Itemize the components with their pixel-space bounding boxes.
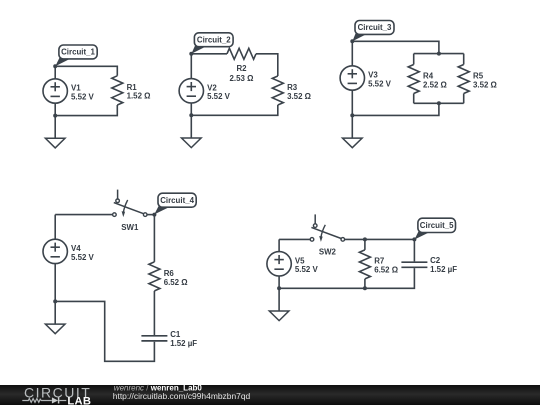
svg-text:V3: V3 <box>368 71 378 80</box>
wire <box>351 90 353 115</box>
wire <box>191 53 227 55</box>
resistor R6 <box>149 262 188 291</box>
wire <box>463 54 465 65</box>
svg-text:SW2: SW2 <box>319 248 337 257</box>
node circuit_3 top <box>350 39 354 43</box>
label Circuit_3 <box>352 21 394 42</box>
svg-text:C2: C2 <box>430 256 441 265</box>
node circuit_5 label <box>412 237 416 241</box>
wire <box>351 41 353 66</box>
node circuit_4 switch <box>152 213 156 217</box>
node circuit_3 junction bottom <box>437 101 441 105</box>
wire <box>55 301 154 361</box>
svg-text:R7: R7 <box>374 257 385 266</box>
wire <box>54 103 56 115</box>
wire <box>55 66 117 76</box>
node circuit_5 r7 bottom <box>363 286 367 290</box>
node circuit_3 bottom <box>350 113 354 117</box>
ground <box>45 301 65 333</box>
ground <box>269 288 289 320</box>
wire <box>153 215 155 262</box>
footer text <box>113 383 251 400</box>
node circuit_5 top <box>363 237 367 241</box>
svg-text:6.52 Ω: 6.52 Ω <box>164 278 188 287</box>
switch SW2 <box>310 214 344 256</box>
svg-text:V4: V4 <box>71 244 81 253</box>
wire <box>256 54 278 76</box>
voltage source V1 <box>43 79 67 103</box>
svg-text:R6: R6 <box>164 269 175 278</box>
switch SW1 <box>113 190 147 232</box>
node circuit_4 bottom <box>53 299 57 303</box>
CircuitLab logo <box>22 385 91 408</box>
svg-text:5.52 V: 5.52 V <box>295 265 319 274</box>
capacitor C2 <box>401 256 457 274</box>
svg-text:2.52 Ω: 2.52 Ω <box>423 80 447 89</box>
wire <box>279 268 414 288</box>
resistor R3 <box>272 76 311 105</box>
node circuit_5 bottom <box>277 286 281 290</box>
svg-text:R4: R4 <box>423 72 434 81</box>
svg-text:Circuit_3: Circuit_3 <box>358 23 392 32</box>
svg-text:5.52 V: 5.52 V <box>71 92 95 101</box>
voltage source V2 <box>179 79 203 103</box>
svg-text:R1: R1 <box>127 83 138 92</box>
svg-text:R5: R5 <box>473 72 484 81</box>
resistor R5 <box>458 65 497 94</box>
svg-text:Circuit_1: Circuit_1 <box>61 48 95 57</box>
resistor R4 <box>408 65 447 94</box>
wire parallel bottom <box>414 102 464 104</box>
wire <box>55 105 117 116</box>
wire <box>364 279 366 288</box>
wire <box>352 103 439 115</box>
wire <box>463 94 465 104</box>
voltage source V3 <box>340 66 364 90</box>
wire <box>278 276 280 288</box>
svg-text:R3: R3 <box>287 83 298 92</box>
svg-text:5.52 V: 5.52 V <box>71 253 95 262</box>
capacitor C1 <box>141 330 197 348</box>
svg-text:1.52 µF: 1.52 µF <box>430 265 457 274</box>
label Circuit_4 <box>154 193 196 214</box>
node circuit_1 bottom <box>53 114 57 118</box>
ground <box>182 115 202 147</box>
svg-text:3.52 Ω: 3.52 Ω <box>287 92 311 101</box>
resistor R1 <box>112 76 151 105</box>
wire <box>413 54 415 65</box>
label Circuit_1 <box>55 45 97 66</box>
svg-text:5.52 V: 5.52 V <box>207 92 231 101</box>
node circuit_3 junction top <box>437 52 441 56</box>
voltage source V4 <box>43 239 67 263</box>
wire <box>190 103 192 115</box>
node circuit_2 bottom <box>189 113 193 117</box>
ground <box>343 115 363 147</box>
svg-text:LAB: LAB <box>67 395 91 405</box>
wire <box>153 291 155 335</box>
node circuit_1 top <box>53 64 57 68</box>
wire parallel top <box>414 53 464 55</box>
svg-text:http://circuitlab.com/c99h4mbz: http://circuitlab.com/c99h4mbzbn7qd <box>113 391 251 401</box>
wire <box>364 239 366 250</box>
svg-text:2.53 Ω: 2.53 Ω <box>230 74 254 83</box>
svg-text:Circuit_4: Circuit_4 <box>160 196 194 205</box>
node circuit_2 top <box>189 52 193 56</box>
wire <box>352 41 439 53</box>
wire <box>54 215 56 240</box>
svg-text:R2: R2 <box>236 64 247 73</box>
wire <box>413 94 415 104</box>
wire <box>55 214 112 216</box>
svg-text:1.52 Ω: 1.52 Ω <box>127 92 151 101</box>
svg-text:3.52 Ω: 3.52 Ω <box>473 80 497 89</box>
svg-text:Circuit_2: Circuit_2 <box>197 36 231 45</box>
svg-text:6.52 Ω: 6.52 Ω <box>374 265 398 274</box>
svg-text:C1: C1 <box>170 330 181 339</box>
label Circuit_5 <box>415 218 456 239</box>
svg-text:Circuit_5: Circuit_5 <box>420 221 454 230</box>
ground <box>45 116 65 148</box>
svg-text:V2: V2 <box>207 83 217 92</box>
wire <box>190 54 192 79</box>
wire <box>147 214 154 216</box>
wire <box>191 105 277 115</box>
wire <box>278 239 280 251</box>
svg-text:SW1: SW1 <box>121 223 139 232</box>
label Circuit_2 <box>191 33 233 54</box>
wire <box>413 239 415 261</box>
wire <box>279 238 310 240</box>
resistor R7 <box>359 250 398 279</box>
svg-text:1.52 µF: 1.52 µF <box>170 339 197 348</box>
wire <box>54 264 56 302</box>
svg-text:5.52 V: 5.52 V <box>368 79 392 88</box>
svg-text:V5: V5 <box>295 256 305 265</box>
wire <box>54 66 56 79</box>
resistor R2 <box>227 48 256 83</box>
voltage source V5 <box>267 252 291 276</box>
wire <box>345 238 415 240</box>
svg-text:V1: V1 <box>71 84 81 93</box>
